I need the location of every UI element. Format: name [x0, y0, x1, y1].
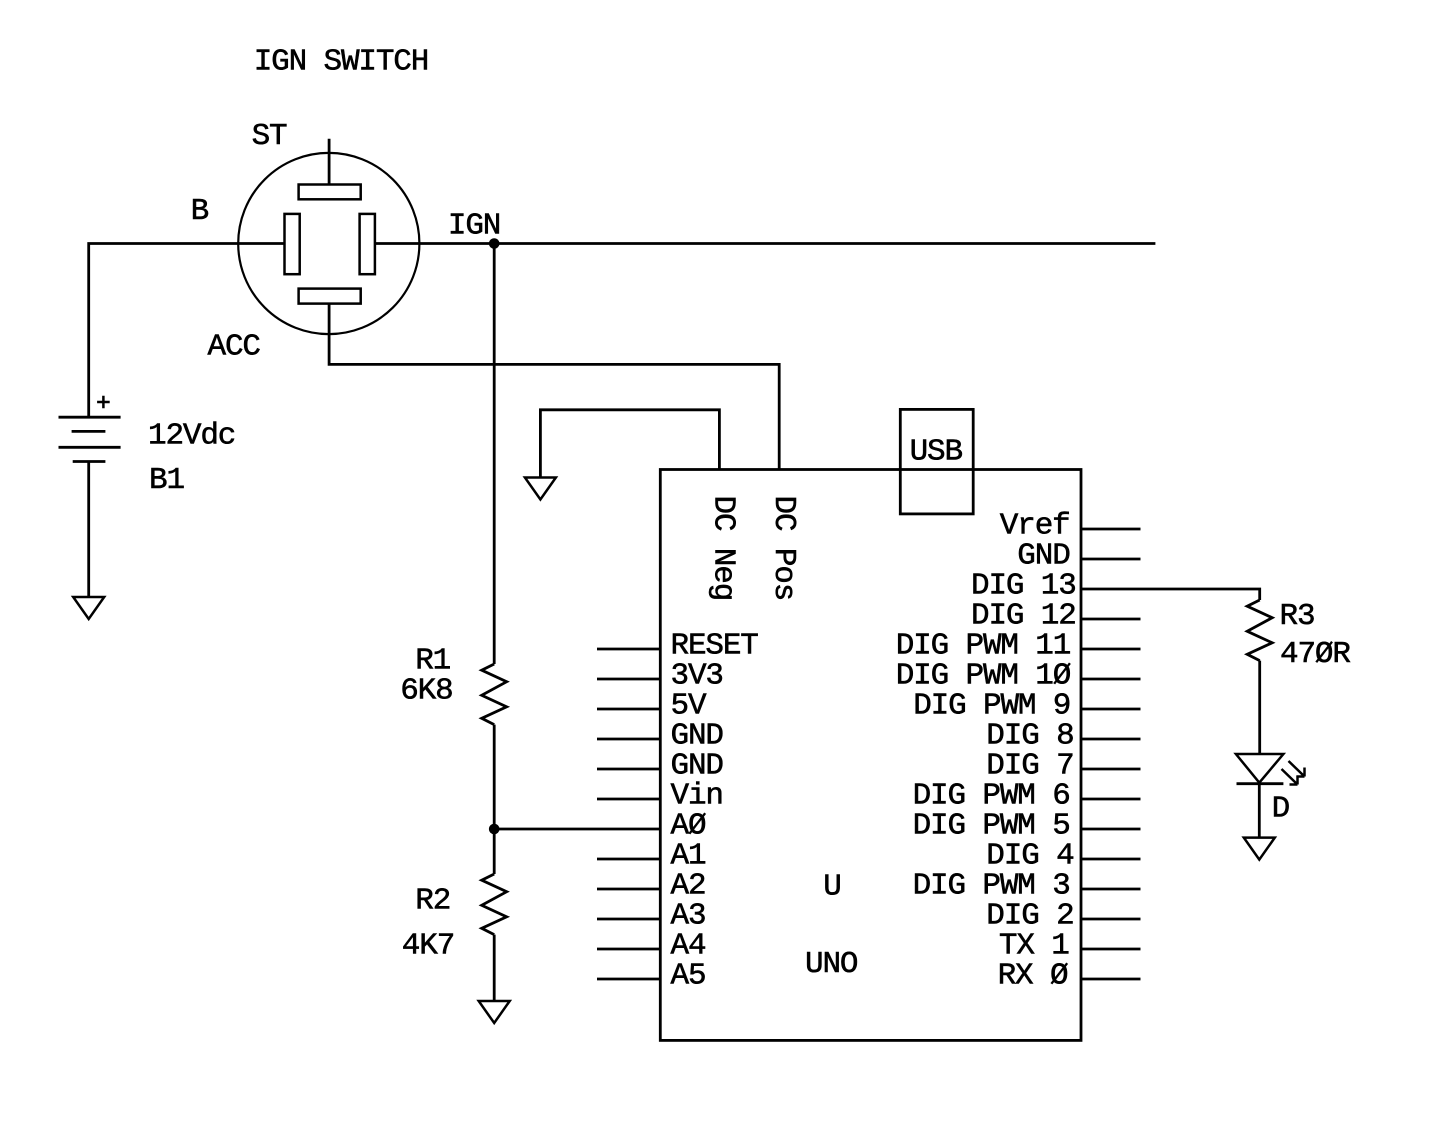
- svg-text:DC Neg: DC Neg: [705, 496, 740, 601]
- svg-text:B1: B1: [149, 463, 184, 498]
- svg-text:IGN: IGN: [448, 209, 500, 244]
- svg-text:R3: R3: [1280, 599, 1315, 634]
- svg-text:USB: USB: [910, 434, 963, 469]
- svg-text:IGN SWITCH: IGN SWITCH: [254, 44, 429, 79]
- svg-text:4K7: 4K7: [402, 929, 454, 964]
- svg-text:ACC: ACC: [208, 330, 261, 365]
- svg-text:A5: A5: [671, 959, 706, 994]
- svg-text:D: D: [1272, 792, 1290, 827]
- svg-text:UNO: UNO: [805, 947, 858, 982]
- svg-text:DC Pos: DC Pos: [766, 496, 801, 601]
- svg-text:R2: R2: [415, 883, 450, 918]
- svg-text:U: U: [823, 870, 840, 905]
- svg-text:RX Ø: RX Ø: [998, 959, 1068, 994]
- svg-text:B: B: [191, 194, 209, 229]
- svg-text:6K8: 6K8: [400, 674, 452, 709]
- svg-text:12Vdc: 12Vdc: [148, 419, 235, 454]
- svg-text:ST: ST: [252, 119, 287, 154]
- svg-text:47ØR: 47ØR: [1280, 637, 1350, 672]
